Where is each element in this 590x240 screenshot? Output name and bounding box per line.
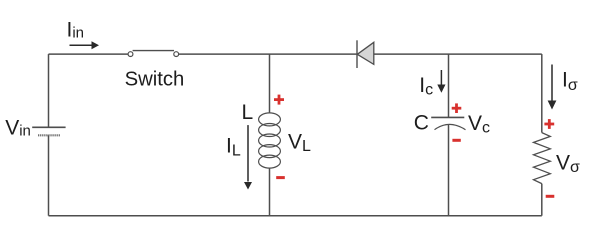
diode D1 triangle bbox=[357, 42, 374, 64]
svg-text:Ic: Ic bbox=[419, 74, 433, 99]
svg-text:Vσ: Vσ bbox=[556, 152, 580, 177]
wire capacitor branch upper bbox=[448, 54, 450, 117]
svg-text:C: C bbox=[414, 112, 429, 135]
wire inductor branch lower bbox=[269, 168, 271, 216]
arrow Iin bbox=[70, 41, 100, 49]
switch bar bbox=[133, 50, 174, 52]
polarity minus Vc bbox=[452, 139, 460, 142]
svg-text:Switch: Switch bbox=[125, 69, 185, 91]
wire right vertical above resistor bbox=[541, 54, 543, 133]
wire left vertical below battery bbox=[48, 135, 50, 215]
arrow IL bbox=[244, 125, 252, 189]
svg-text:L: L bbox=[242, 101, 254, 124]
switch contact circle left bbox=[128, 52, 133, 57]
wire top from switch to right corner bbox=[178, 53, 542, 55]
polarity plus VL bbox=[274, 95, 284, 105]
wire top left segment bbox=[49, 53, 129, 55]
capacitor C plate curved bbox=[435, 124, 466, 129]
polarity plus Vc bbox=[452, 103, 462, 113]
arrow Isigma bbox=[548, 65, 557, 110]
battery Vin plate long bbox=[32, 126, 65, 128]
arrow Ic bbox=[437, 70, 445, 93]
wire inductor branch upper bbox=[269, 54, 271, 113]
svg-text:Vc: Vc bbox=[468, 112, 490, 137]
capacitor C plate straight bbox=[431, 116, 464, 118]
svg-text:Vin: Vin bbox=[5, 117, 31, 140]
svg-text:Iin: Iin bbox=[67, 18, 85, 41]
wire bottom bbox=[49, 215, 542, 217]
resistor Vsigma zigzag bbox=[534, 133, 551, 184]
wire right vertical below resistor bbox=[541, 184, 543, 216]
diode D1 cathode bar bbox=[356, 40, 358, 68]
polarity minus Vsigma bbox=[546, 195, 555, 198]
switch contact circle right bbox=[174, 52, 179, 57]
svg-text:Iσ: Iσ bbox=[562, 68, 578, 94]
inductor L coil bbox=[259, 113, 281, 168]
svg-text:IL: IL bbox=[226, 134, 241, 159]
polarity minus VL bbox=[276, 176, 285, 179]
svg-text:VL: VL bbox=[288, 130, 311, 155]
wire left vertical above battery bbox=[48, 54, 50, 127]
polarity plus Vsigma bbox=[544, 119, 554, 129]
wire capacitor branch lower bbox=[448, 124, 450, 216]
battery Vin plate short dashed bbox=[38, 134, 60, 136]
